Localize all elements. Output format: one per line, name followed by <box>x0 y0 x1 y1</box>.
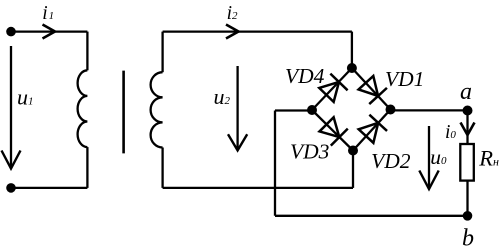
svg-text:a: a <box>460 79 472 105</box>
svg-text:VD1: VD1 <box>385 67 424 91</box>
svg-text:VD3: VD3 <box>290 139 329 163</box>
svg-text:b: b <box>462 225 474 250</box>
svg-text:VD4: VD4 <box>285 64 325 88</box>
svg-text:VD2: VD2 <box>371 149 411 173</box>
